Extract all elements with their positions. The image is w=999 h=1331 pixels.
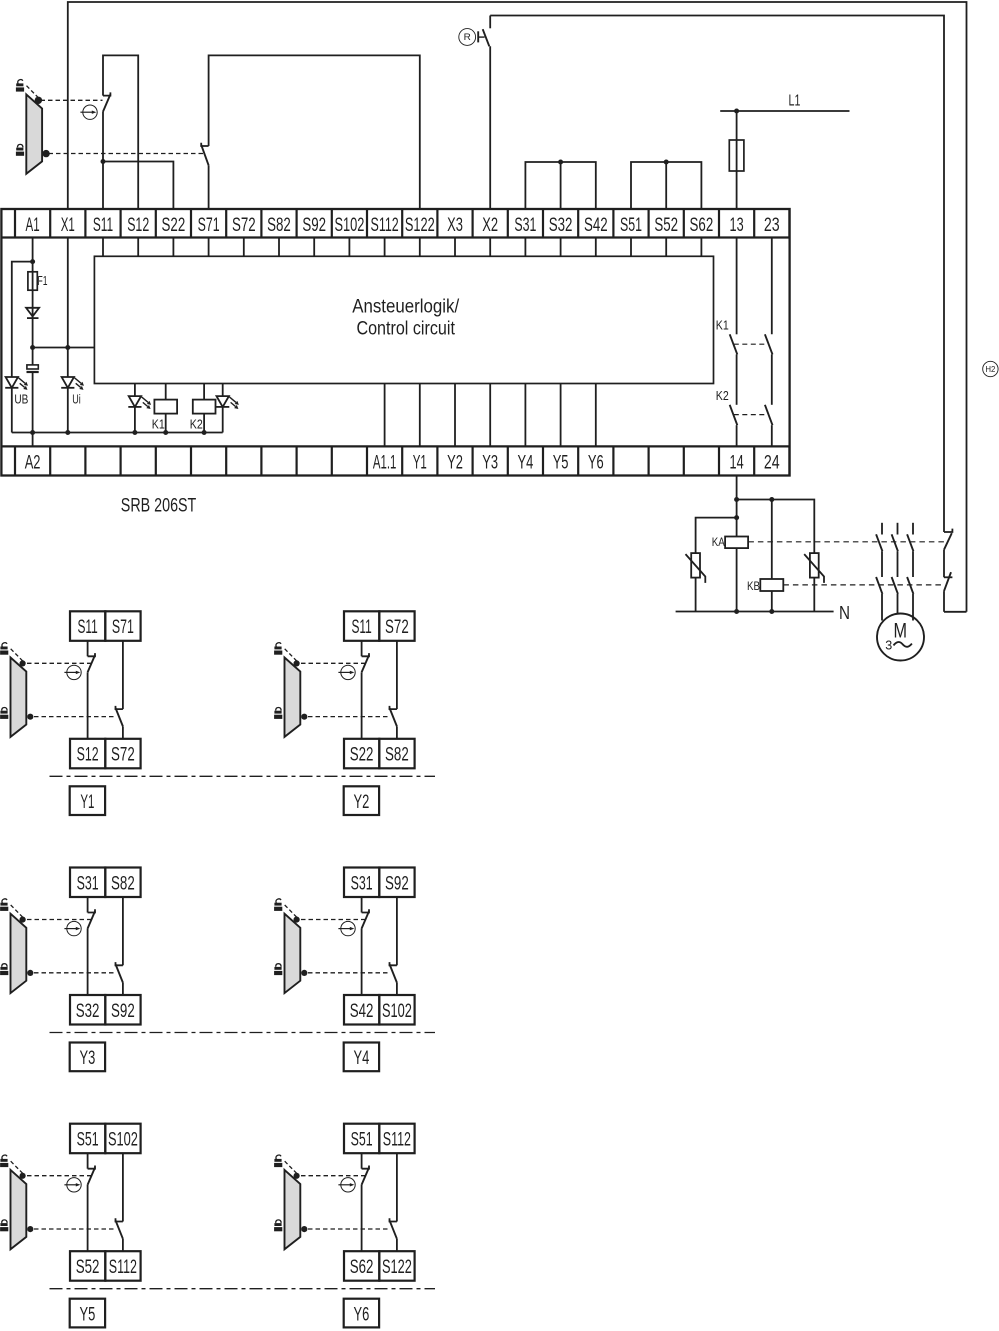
- wire KB coil to N: [771, 591, 773, 612]
- Y6 lower terminal box S122: [379, 1251, 414, 1281]
- wire between KA and KB contacts phase 3: [912, 551, 914, 577]
- phase 1 supply stub: [881, 523, 883, 535]
- svg-text:S51: S51: [351, 1130, 373, 1151]
- svg-text:S52: S52: [654, 215, 678, 236]
- Y1 lower terminal box S72: [105, 739, 140, 769]
- svg-text:Y5: Y5: [80, 1304, 96, 1325]
- wire door contact to S112: [122, 1239, 124, 1251]
- neutral line N: [676, 611, 834, 613]
- Y4 actuator symbol: [338, 921, 355, 935]
- Y2 door contact channel 2: [390, 706, 397, 727]
- sub-circuit block Y4: [344, 868, 415, 1025]
- wire door contact to S52: [87, 1185, 89, 1252]
- K1 contacts mechanical link: [734, 343, 768, 345]
- Y3 dashed actuation channel 2: [34, 972, 114, 974]
- svg-text:KA: KA: [712, 537, 725, 549]
- varistor across KB: [804, 553, 824, 583]
- door contact 2 (S71 channel, NC): [201, 143, 208, 166]
- bottom row divider 21: [753, 446, 755, 475]
- stub terminal to logic box at x=314: [313, 238, 315, 257]
- svg-text:S11: S11: [93, 215, 113, 236]
- wire X1 down to Ui LED: [67, 238, 69, 378]
- top row divider 1: [49, 209, 51, 238]
- wire capacitor to rail and terminal A2: [32, 372, 34, 446]
- KA mechanical link dashed: [748, 541, 944, 543]
- Y3 upper terminal box S82: [105, 868, 140, 898]
- stub logic box to bottom terminal at x=385: [384, 384, 386, 447]
- aux contact KB fixed hook: [944, 576, 952, 578]
- svg-text:S32: S32: [549, 215, 573, 236]
- sub-circuit block Y3: [70, 868, 141, 1025]
- bottom row divider 3: [119, 446, 121, 475]
- stub terminal to logic box at x=385: [384, 238, 386, 257]
- LED at K1: [128, 396, 151, 409]
- wire branch to UB LED: [12, 262, 33, 377]
- LED at K2: [216, 396, 239, 409]
- stub logic box to bottom terminal at x=455: [454, 384, 456, 447]
- LED Ui: [61, 377, 84, 390]
- Y1 lower terminal box S12: [70, 739, 105, 769]
- wire left varistor to N: [695, 578, 697, 612]
- Y6 output box: [344, 1299, 379, 1328]
- bottom row divider 1: [49, 446, 51, 475]
- top row divider 7: [260, 209, 262, 238]
- contactor coil KA: [725, 537, 748, 549]
- junction KB on N: [769, 609, 774, 614]
- wire bridge S31-S42: [525, 162, 595, 209]
- wire UB LED to rail: [11, 388, 13, 433]
- Y1 actuator symbol: [64, 665, 81, 679]
- sub-circuit block Y2: [344, 611, 415, 768]
- junction 13 tap on L1: [734, 109, 739, 114]
- stub terminal to logic box at x=103: [102, 238, 104, 257]
- svg-text:R: R: [464, 32, 471, 43]
- wire logic box to relay coil K2: [203, 384, 205, 400]
- Y3 upper terminal box S31: [70, 868, 105, 898]
- wire door contact to S32: [87, 929, 89, 996]
- Y5 actuator symbol: [64, 1178, 81, 1192]
- junction KB feed: [769, 497, 774, 502]
- Y5 output box: [70, 1299, 105, 1328]
- sub-circuit block Y6: [344, 1124, 415, 1281]
- top row divider 15: [542, 209, 544, 238]
- Y5 upper terminal box S102: [105, 1124, 140, 1154]
- top row divider 3: [119, 209, 121, 238]
- relay contact K1 (23-24): [765, 334, 773, 354]
- stub terminal to logic box at x=631: [630, 238, 632, 257]
- Y6 dashed actuation channel 1: [301, 1175, 365, 1177]
- junction X1 on internal supply: [65, 345, 70, 350]
- wire terminal 13 to K1 contact: [736, 238, 738, 335]
- svg-text:X1: X1: [61, 215, 75, 236]
- Y3 door contact channel 1: [88, 909, 95, 928]
- junction A1 on 0V rail: [30, 430, 35, 435]
- aux contact KA blade: [944, 533, 952, 550]
- svg-text:K2: K2: [716, 389, 729, 403]
- wire S32 to bridge: [560, 162, 562, 209]
- dashed actuation line channel 1: [41, 99, 103, 101]
- junction A1 internal supply node: [30, 345, 35, 350]
- top row divider 10: [366, 209, 368, 238]
- svg-text:14: 14: [730, 453, 744, 474]
- safety door switch B1: [26, 86, 42, 174]
- Y6 door contact channel 1: [362, 1166, 369, 1185]
- wire bridge S51-S62: [631, 162, 701, 209]
- Y5 safety door symbol channel-2 tap dot: [27, 1226, 33, 1232]
- wire door contact to S62: [361, 1185, 363, 1252]
- top row divider 5: [190, 209, 192, 238]
- svg-text:Y3: Y3: [482, 453, 498, 474]
- Y5 door contact channel 2: [116, 1218, 123, 1239]
- wire S11 to door contact: [87, 641, 89, 657]
- svg-text:H2: H2: [985, 365, 995, 374]
- svg-text:F1: F1: [38, 274, 48, 288]
- junction varistor branch: [734, 515, 739, 520]
- wire door contact to S22: [361, 672, 363, 739]
- svg-text:S72: S72: [111, 745, 135, 766]
- phase 2 supply stub: [897, 523, 899, 535]
- bottom row divider 16: [577, 446, 579, 475]
- svg-text:Y2: Y2: [447, 453, 463, 474]
- reset pushbutton contact blade: [483, 29, 490, 46]
- wire door contact to terminal S11: [102, 112, 104, 209]
- relay contact K2 (23-24): [765, 405, 773, 425]
- Y4 upper terminal box S92: [379, 868, 414, 898]
- stub logic box to bottom terminal at x=525: [524, 384, 526, 447]
- top row divider 19: [683, 209, 685, 238]
- svg-text:S72: S72: [232, 215, 256, 236]
- bottom row divider 22: [788, 446, 790, 475]
- Y3 safety door symbol closed-padlock icon: [0, 964, 8, 975]
- svg-text:S51: S51: [77, 1130, 99, 1151]
- Y5 lower terminal box S112: [105, 1251, 140, 1281]
- svg-text:S112: S112: [383, 1130, 411, 1151]
- top row divider 20: [718, 209, 720, 238]
- Y5 dashed actuation channel 1: [27, 1175, 91, 1177]
- svg-text:Y3: Y3: [80, 1048, 96, 1069]
- diode V1 cathode bar: [27, 317, 39, 319]
- svg-text:S12: S12: [127, 215, 149, 236]
- bottom row divider 6: [225, 446, 227, 475]
- K2 contacts mechanical link: [734, 414, 768, 416]
- relay contact K2 (13-14): [730, 405, 738, 425]
- stub terminal to logic box at x=525: [524, 238, 526, 257]
- fuse in L1 line: [729, 140, 744, 171]
- supply line L1: [720, 110, 849, 112]
- top row divider 14: [507, 209, 509, 238]
- relay coil K2: [193, 400, 216, 414]
- svg-text:S112: S112: [371, 215, 399, 236]
- top row divider 2: [84, 209, 86, 238]
- wire between aux contacts: [943, 550, 945, 578]
- wire logic box to K2 LED: [222, 384, 224, 397]
- wire K2 contact to terminal 24: [771, 425, 773, 446]
- Y3 output box: [70, 1043, 105, 1072]
- svg-text:SRB 206ST: SRB 206ST: [121, 495, 197, 517]
- reset pushbutton plunger bar: [477, 31, 479, 42]
- svg-text:S92: S92: [302, 215, 326, 236]
- junction wire K2 coil to rail: [203, 414, 205, 433]
- Y1 safety door symbol open-padlock icon: [0, 642, 8, 655]
- wire K1 contact to K2 contact (23-24): [771, 354, 773, 404]
- Y2 upper terminal box S72: [379, 611, 414, 641]
- wire internal supply node into logic box: [33, 347, 95, 349]
- svg-text:A1.1: A1.1: [373, 453, 397, 474]
- svg-text:Ui: Ui: [72, 393, 81, 407]
- Y2 dashed actuation channel 2: [308, 716, 388, 718]
- bottom row divider 0: [14, 446, 16, 475]
- fuse wire through: [736, 140, 738, 171]
- Y6 safety door symbol closed-padlock icon: [274, 1220, 282, 1231]
- Y5 dashed actuation channel 2: [34, 1228, 114, 1230]
- motor M 3~: [877, 614, 924, 661]
- KB mechanical link dashed: [783, 584, 944, 586]
- Y4 upper terminal box S31: [344, 868, 379, 898]
- wire door contact to S42: [361, 929, 363, 996]
- svg-text:Y6: Y6: [354, 1304, 370, 1325]
- wire K2 LED down to rail end: [222, 407, 224, 433]
- svg-text:S42: S42: [584, 215, 608, 236]
- bottom row divider 2: [84, 446, 86, 475]
- svg-text:S71: S71: [112, 617, 134, 638]
- wire between KA and KB contacts phase 2: [897, 551, 899, 577]
- wire door contact to terminal S71: [208, 165, 210, 209]
- motor AC tilde: [894, 642, 912, 647]
- wire K1 LED to rail: [134, 407, 136, 433]
- contactor KB main contact phase 1: [876, 577, 882, 594]
- wire KB contact to motor phase 1: [881, 594, 883, 621]
- bottom row divider 13: [472, 446, 474, 475]
- bottom row divider 7: [260, 446, 262, 475]
- wire door contact to S82: [396, 726, 398, 738]
- wire S102 to door contact: [122, 1153, 124, 1221]
- svg-text:S122: S122: [405, 215, 435, 236]
- Y3 lower terminal box S92: [105, 995, 140, 1025]
- top row divider 12: [436, 209, 438, 238]
- stub logic box to bottom terminal at x=490: [489, 384, 491, 447]
- junction 14 feed: [734, 497, 739, 502]
- wire X1 up, top rail, right rail down to H2 loop: [68, 2, 967, 612]
- wire X2 upper stub at reset button: [489, 16, 491, 29]
- LED UB: [5, 377, 28, 390]
- wire S11 to door contact: [361, 641, 363, 657]
- wire S92 to door contact: [396, 897, 398, 965]
- svg-text:S102: S102: [382, 1001, 412, 1022]
- Y3 lower terminal box S32: [70, 995, 105, 1025]
- contactor KA main contact phase 2: [892, 534, 898, 551]
- separator line under row 3: [50, 1288, 436, 1290]
- svg-text:S102: S102: [334, 215, 364, 236]
- separator line under row 2: [50, 1032, 436, 1034]
- Y6 upper terminal box S112: [379, 1124, 414, 1154]
- stub terminal to logic box at x=490: [489, 238, 491, 257]
- wire logic box to K1 LED: [134, 384, 136, 397]
- stub terminal to logic box at x=420: [419, 238, 421, 257]
- sub-circuit block Y5: [70, 1124, 141, 1281]
- svg-text:24: 24: [764, 453, 780, 474]
- bottom row divider 4: [155, 446, 157, 475]
- F1 wire through: [32, 272, 34, 290]
- svg-text:S32: S32: [76, 1001, 100, 1022]
- wire feed to KB branch and right varistor: [737, 500, 815, 554]
- Y6 safety door symbol open-padlock icon: [274, 1154, 282, 1167]
- Y4 safety door symbol: [285, 905, 301, 993]
- junction Ui on rail: [65, 430, 70, 435]
- Y1 safety door symbol closed-padlock icon: [0, 708, 8, 719]
- stub terminal to logic box at x=561: [560, 238, 562, 257]
- junction KA on N: [734, 609, 739, 614]
- svg-text:S31: S31: [514, 215, 536, 236]
- bottom row divider 15: [542, 446, 544, 475]
- bottom terminal row top edge: [1, 445, 789, 447]
- svg-text:X2: X2: [482, 215, 498, 236]
- top row divider 18: [647, 209, 649, 238]
- Y2 lower terminal box S22: [344, 739, 379, 769]
- Y5 lower terminal box S52: [70, 1251, 105, 1281]
- wire K1 contact to K2 contact (13-14): [736, 354, 738, 404]
- top row divider 11: [401, 209, 403, 238]
- wire inner top rail from reset button to KA/KB aux contacts: [490, 16, 944, 533]
- svg-text:N: N: [839, 603, 850, 623]
- wire terminal 23 to K1 contact: [771, 238, 773, 335]
- svg-text:3: 3: [885, 638, 892, 653]
- wire S11 junction to terminal S22: [103, 162, 173, 210]
- Y4 door contact channel 1: [362, 909, 369, 928]
- top terminal row bottom edge: [1, 236, 789, 238]
- Y1 safety door symbol channel-2 tap dot: [27, 714, 33, 720]
- junction S52 bridge: [664, 160, 669, 165]
- svg-text:S62: S62: [350, 1257, 374, 1278]
- wire KA coil to N: [736, 548, 738, 611]
- svg-text:Y6: Y6: [588, 453, 604, 474]
- svg-text:KB: KB: [747, 581, 760, 593]
- top row divider 13: [472, 209, 474, 238]
- Y5 safety door symbol channel-1 tap dot: [20, 1173, 26, 1179]
- Y3 safety door symbol channel-2 tap dot: [27, 970, 33, 976]
- Y2 lower terminal box S82: [379, 739, 414, 769]
- Y2 actuator symbol: [338, 665, 355, 679]
- wire S11-S12 top bracket: [103, 55, 138, 209]
- bottom row divider 9: [331, 446, 333, 475]
- indicator lamp H2 symbol: [983, 361, 998, 376]
- aux contact KB blade: [944, 572, 951, 591]
- svg-text:S22: S22: [162, 215, 186, 236]
- svg-text:S51: S51: [620, 215, 642, 236]
- svg-text:S82: S82: [267, 215, 291, 236]
- Y1 dashed actuation channel 2: [34, 716, 114, 718]
- Y6 dashed actuation channel 2: [308, 1228, 388, 1230]
- Y1 output box: [70, 786, 105, 815]
- Y6 door contact channel 2: [390, 1218, 397, 1239]
- Y6 actuator symbol: [338, 1178, 355, 1192]
- Y6 lower terminal box S62: [344, 1251, 379, 1281]
- diode V1: [26, 308, 39, 317]
- contactor KB main contact phase 2: [892, 577, 898, 594]
- svg-text:Y2: Y2: [354, 792, 370, 813]
- wire S82 to door contact: [122, 897, 124, 965]
- varistor across KA: [686, 553, 706, 583]
- stub terminal to logic box at x=209: [208, 238, 210, 257]
- bottom row divider 5: [190, 446, 192, 475]
- wire right varistor to N: [813, 578, 815, 612]
- Y1 door contact channel 1: [88, 653, 95, 672]
- bottom row divider 19: [683, 446, 685, 475]
- relay contact K1 (13-14): [730, 334, 738, 354]
- svg-text:Ansteuerlogik/: Ansteuerlogik/: [352, 296, 459, 318]
- svg-text:S52: S52: [76, 1257, 100, 1278]
- Y3 actuator symbol: [64, 921, 81, 935]
- junction K1 LED on rail: [132, 430, 137, 435]
- Y2 door contact channel 1: [362, 653, 369, 672]
- Y1 dashed actuation channel 1: [27, 662, 91, 664]
- svg-text:A1: A1: [26, 215, 40, 236]
- Y6 safety door symbol channel-1 tap dot: [294, 1173, 300, 1179]
- Y1 upper terminal box S11: [70, 611, 105, 641]
- wire S51 to door contact: [87, 1153, 89, 1169]
- stub logic box to bottom terminal at x=561: [560, 384, 562, 447]
- Y4 door contact channel 2: [390, 962, 397, 983]
- phase 3 supply stub: [912, 523, 914, 535]
- svg-text:S102: S102: [108, 1130, 138, 1151]
- bottom row divider 11: [401, 446, 403, 475]
- Y4 lower terminal box S42: [344, 995, 379, 1025]
- stub terminal to logic box at x=138: [137, 238, 139, 257]
- wire KB contact to motor phase 2: [897, 594, 899, 614]
- Y3 safety door symbol open-padlock icon: [0, 898, 8, 911]
- svg-text:S12: S12: [77, 745, 99, 766]
- Y3 safety door symbol: [11, 905, 27, 993]
- svg-text:X3: X3: [447, 215, 463, 236]
- bottom row divider 14: [507, 446, 509, 475]
- stub terminal to logic box at x=244: [243, 238, 245, 257]
- svg-text:S42: S42: [350, 1001, 374, 1022]
- wire door contact to S12: [87, 672, 89, 739]
- junction A1/UB branch: [30, 259, 35, 264]
- wire Ui LED to rail: [67, 388, 69, 433]
- svg-text:S11: S11: [351, 617, 371, 638]
- svg-text:Y4: Y4: [354, 1048, 370, 1069]
- wire reset button to terminal X2: [489, 46, 491, 209]
- svg-text:A2: A2: [25, 453, 41, 474]
- wire door contact to S92: [122, 983, 124, 995]
- svg-text:S31: S31: [77, 873, 99, 894]
- top row divider 21: [753, 209, 755, 238]
- contactor KA main contact phase 3: [907, 534, 913, 551]
- Y5 safety door symbol: [11, 1161, 27, 1249]
- Y2 safety door symbol open-padlock icon: [274, 642, 282, 655]
- stub terminal to logic box at x=455: [454, 238, 456, 257]
- contactor KB main contact phase 3: [907, 577, 913, 594]
- reset pushbutton link: [478, 36, 484, 38]
- svg-text:K1: K1: [716, 319, 729, 333]
- Y2 safety door symbol channel-2 tap dot: [301, 714, 307, 720]
- reset button symbol circle: [459, 29, 476, 46]
- svg-text:S82: S82: [385, 745, 409, 766]
- svg-text:S92: S92: [385, 873, 409, 894]
- Y3 door contact channel 2: [116, 962, 123, 983]
- Y1 safety door symbol channel-1 tap dot: [20, 660, 26, 666]
- wire door contact to S102: [396, 983, 398, 995]
- Y4 output box: [344, 1043, 379, 1072]
- svg-text:S92: S92: [111, 1001, 135, 1022]
- internal 0V rail: [12, 432, 223, 434]
- top row divider 4: [155, 209, 157, 238]
- wire K1 coil to rail: [165, 414, 167, 433]
- Y2 upper terminal box S11: [344, 611, 379, 641]
- bottom row divider 20: [718, 446, 720, 475]
- bottom row divider 17: [612, 446, 614, 475]
- Y5 safety door symbol closed-padlock icon: [0, 1220, 8, 1231]
